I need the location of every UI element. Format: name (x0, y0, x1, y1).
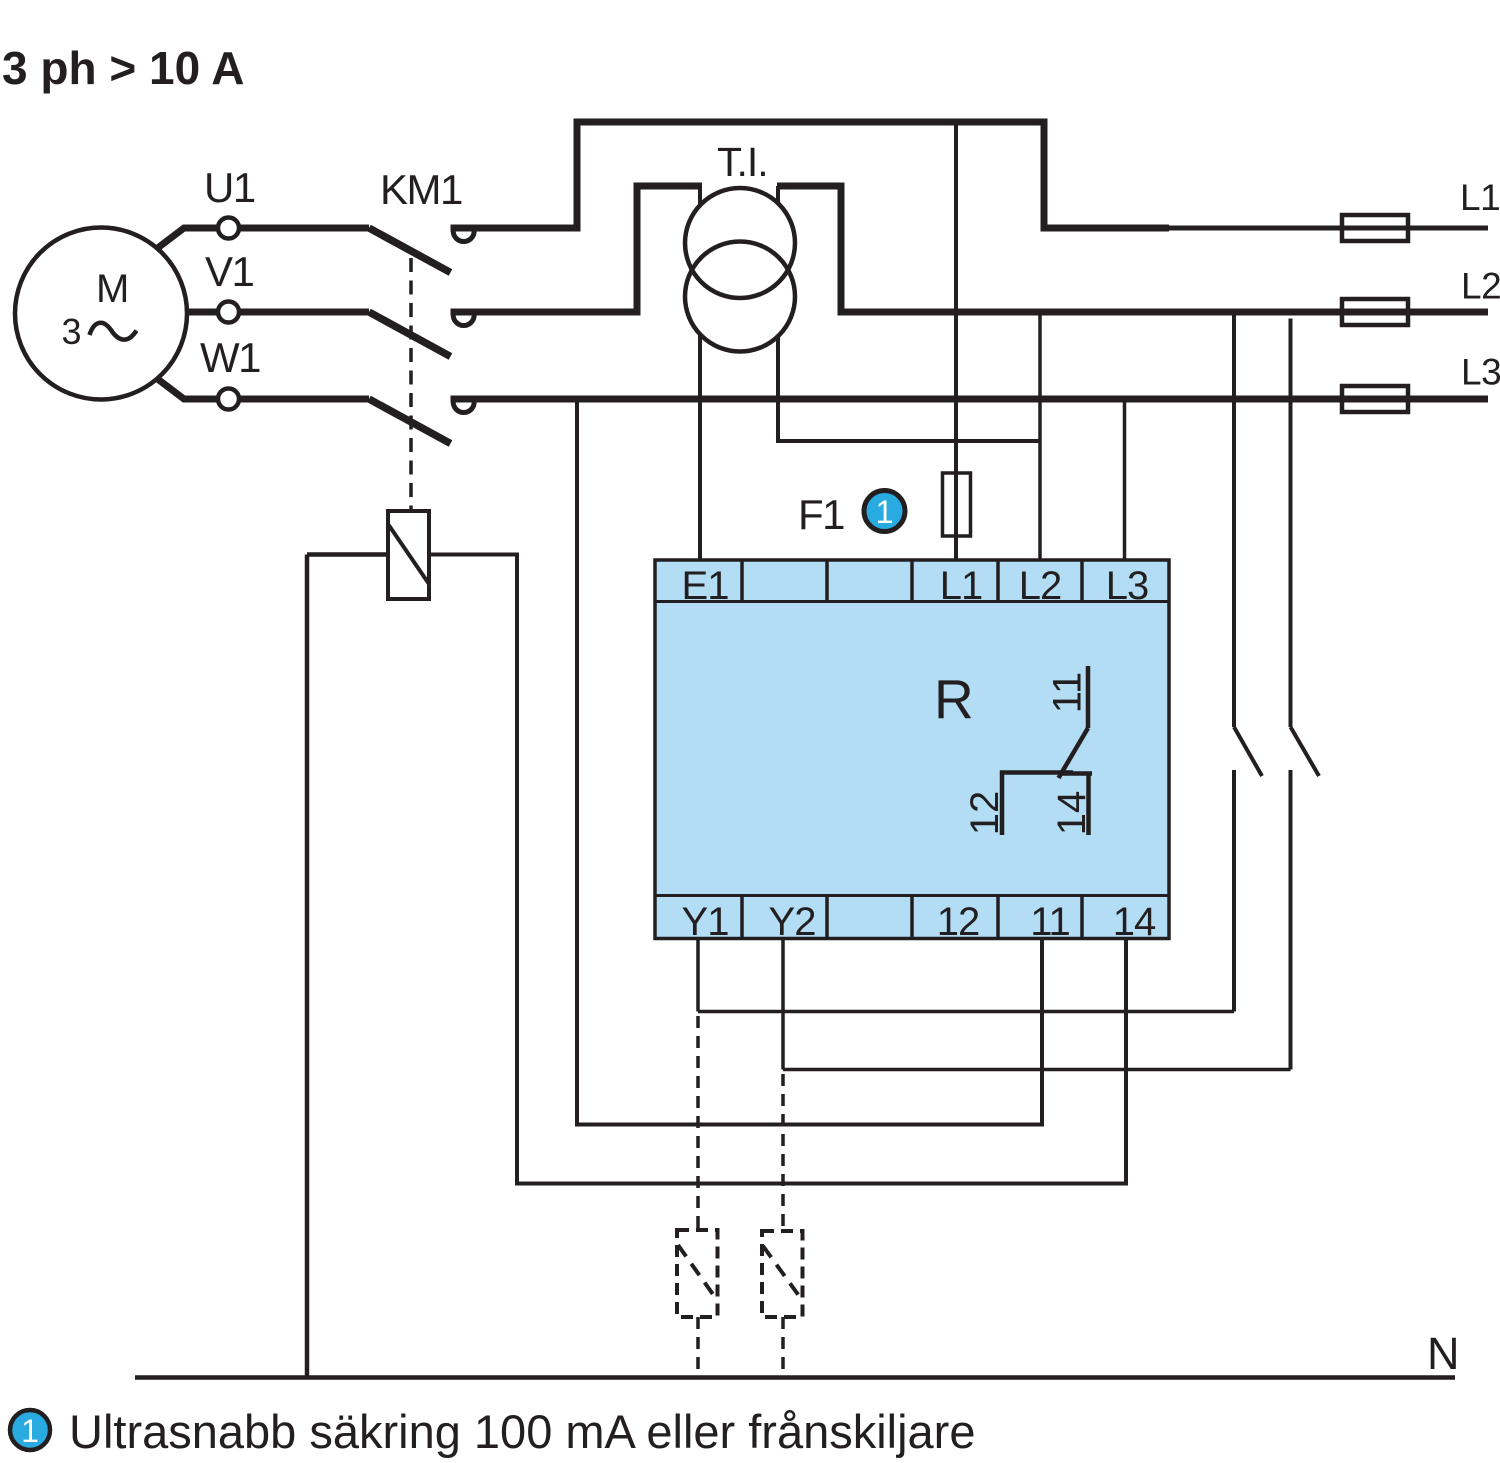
svg-text:V1: V1 (205, 248, 254, 295)
svg-text:U1: U1 (204, 164, 255, 211)
wire L3 to edge (1408, 396, 1488, 403)
KM1 pole 1 blade (369, 228, 451, 273)
svg-text:3: 3 (62, 311, 82, 352)
wire Y2 link to right contact (783, 1068, 1291, 1072)
svg-text:E1: E1 (682, 564, 729, 608)
svg-text:W1: W1 (200, 334, 260, 381)
svg-text:1: 1 (21, 1413, 39, 1449)
wire CT through-wire to L2 node (778, 186, 1040, 441)
relay bottom terminal labels (682, 900, 1156, 944)
relay internal contact: blade (1059, 728, 1089, 778)
fuse L1 (1342, 215, 1408, 241)
KM1 pole 1 fixed contact (453, 231, 474, 242)
right contact B upper wire (1289, 319, 1293, 728)
fuse F1 (943, 473, 971, 536)
right contact A blade (1234, 727, 1262, 776)
right contact A upper wire (1232, 312, 1236, 727)
svg-text:Ultrasnabb säkring 100 mA elle: Ultrasnabb säkring 100 mA eller frånskil… (69, 1405, 975, 1458)
svg-text:12: 12 (963, 791, 1007, 836)
right contact B blade (1291, 727, 1320, 776)
wire coil right down (429, 555, 1126, 1184)
motor M 3~ (15, 228, 187, 400)
right contact B lower wire (1289, 770, 1293, 1070)
KM1 pole 2 blade (369, 312, 451, 357)
relay internal contact: 12 lead (1002, 773, 1073, 836)
KM1 pole 3 fixed contact (453, 402, 474, 413)
wire Y2 dashed (781, 1074, 785, 1231)
wire L1 to edge (1166, 226, 1488, 231)
svg-text:14: 14 (1113, 900, 1156, 944)
svg-text:L3: L3 (1461, 352, 1500, 393)
wire U1 phase: motor lead to KM1 (155, 228, 218, 250)
relay top terminal dividers (742, 560, 1082, 602)
wire Y1 link to right contact (698, 1010, 1234, 1014)
svg-text:Y1: Y1 (682, 900, 729, 944)
relay internal contact: 11 lead (1086, 666, 1091, 728)
note mark 1 in legend (10, 1410, 50, 1450)
svg-text:R: R (934, 668, 974, 730)
svg-text:Y2: Y2 (769, 900, 816, 944)
svg-text:L2: L2 (1019, 564, 1062, 608)
wire W1 phase: motor lead (155, 377, 218, 399)
wire L2 to edge (1408, 309, 1488, 316)
svg-text:11: 11 (1030, 900, 1070, 944)
svg-text:12: 12 (937, 900, 980, 944)
wire coil left to N drop (307, 552, 388, 557)
svg-text:KM1: KM1 (380, 166, 462, 213)
svg-text:L1: L1 (1460, 177, 1500, 218)
svg-text:F1: F1 (798, 491, 844, 538)
wire phase1 KM1 to top bus (451, 122, 1170, 228)
terminal V1 (218, 302, 239, 323)
varistor 2 (762, 1231, 803, 1317)
terminal W1 (218, 389, 239, 410)
relay top terminal labels (682, 564, 1149, 608)
relay bottom terminal dividers (742, 896, 1082, 939)
wire F1 branch (954, 122, 958, 560)
wire varistor 2 to N dashed (781, 1317, 785, 1375)
current transformer T.I. (685, 188, 795, 352)
wire CT through-wire to E1 (698, 186, 702, 560)
right contact A lower wire (1232, 770, 1236, 1012)
note mark 1 at F1 (864, 491, 905, 532)
terminal U1 (218, 218, 239, 239)
varistor 1 (677, 1230, 718, 1317)
svg-text:N: N (1427, 1328, 1460, 1379)
svg-text:1: 1 (876, 494, 894, 530)
KM1 coil (388, 511, 429, 599)
svg-text:M: M (96, 267, 129, 311)
relay R box (655, 560, 1169, 939)
svg-text:L3: L3 (1106, 564, 1149, 608)
wire phase3 KM1 to L3 (451, 396, 1346, 403)
relay internal contact: 14 lead (1058, 771, 1092, 776)
wire phase2 KM1 through CT loop (451, 186, 703, 312)
wire Y1 solid (696, 939, 700, 1012)
fuse L3 (1342, 386, 1408, 412)
KM1 pole 2 fixed contact (453, 315, 474, 326)
KM1 mechanical link dashed (409, 258, 413, 511)
wire Y1 dashed (696, 1016, 700, 1230)
svg-text:T.I.: T.I. (717, 139, 768, 185)
wire varistor 1 to N dashed (696, 1317, 700, 1375)
wire contact 11 loop (577, 399, 1042, 1125)
wire Y2 solid (781, 939, 785, 1070)
svg-text:L2: L2 (1461, 266, 1500, 307)
fuse L2 (1342, 299, 1408, 325)
svg-text:L1: L1 (940, 564, 983, 608)
KM1 pole 3 blade (369, 399, 451, 444)
svg-text:14: 14 (1050, 791, 1094, 836)
wire relay L2 terminal to L2 bus (1038, 312, 1042, 560)
wire relay L3 terminal to L3 bus (1123, 399, 1127, 560)
svg-text:3 ph > 10 A: 3 ph > 10 A (2, 42, 244, 94)
svg-text:11: 11 (1046, 672, 1090, 714)
wire V1 phase: motor lead (185, 309, 218, 316)
N line (135, 1375, 1455, 1380)
